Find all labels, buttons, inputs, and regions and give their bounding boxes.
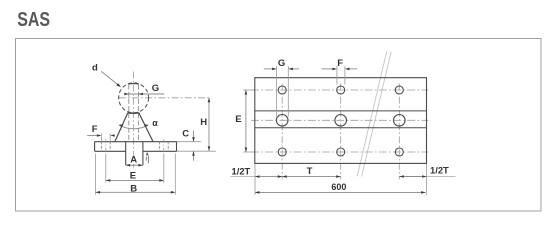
B extension lines [95,154,97,195]
svg-text:α: α [152,118,158,128]
half-T left faint line [231,176,256,178]
boss left edge [125,142,127,165]
ball top edge arc [129,83,139,86]
hole row3 col3 [395,148,403,156]
F dimension arrows [87,135,97,137]
svg-text:G: G [278,58,285,69]
ball d (dashed circle) [119,83,149,113]
A dimension line (boss bottom) [126,164,143,166]
left plate hole hidden edges [100,142,102,152]
svg-text:1/2T: 1/2T [430,164,449,175]
rail groove lower edge [255,127,427,129]
plate top extension for C [177,141,201,143]
plate bottom extension for C and H [177,150,216,152]
bottom extension line right edge [426,164,428,195]
hole row1 col3 [395,86,403,94]
break line 2 [362,52,392,177]
hole row3 col1 [278,148,286,156]
svg-text:B: B [130,184,137,195]
E extension lines [105,154,107,183]
svg-text:C: C [182,129,189,140]
C dimension arrows [193,131,195,142]
G dimension (ball hole) [124,93,164,95]
hole row3 col2 [337,148,345,156]
svg-text:d: d [92,63,98,74]
column centerline 1 [281,84,283,180]
content box frame [16,39,542,212]
svg-text:G: G [152,83,159,94]
H dimension line [208,98,210,151]
row centerline middle [251,119,428,121]
T dimension [282,176,341,178]
column centerline 3 [398,84,400,180]
plate bottom edge right part [143,150,177,152]
alpha angle arc [120,125,148,128]
big hole row2 col1 [276,115,288,127]
right plate hole hidden edges [159,142,161,152]
vertical centerline [133,72,135,168]
plate top edge [95,141,177,143]
G extension lines (big hole) [276,66,278,117]
F extension lines (small hole) [336,66,338,85]
horizontal centerline through ball [119,97,212,99]
E dimension line [106,179,164,181]
E dimension line (right view) [245,90,247,152]
big hole row2 col3 [394,115,406,127]
F dimension arrows [321,68,332,70]
svg-text:E: E [130,171,136,182]
bottom extension line left edge [254,164,256,195]
cone right side [139,113,153,142]
plate bottom edge left part [95,150,126,152]
svg-text:H: H [200,117,207,128]
hole row1 col1 [278,86,286,94]
half-T right faint line [427,176,456,178]
hidden hole wall left [128,85,130,142]
svg-text:F: F [92,124,98,135]
svg-text:E: E [235,114,241,125]
column centerline 2 [340,84,342,180]
svg-text:F: F [337,58,343,69]
rail groove upper edge [255,110,427,112]
svg-text:T: T [307,166,313,177]
row centerline top [251,89,428,91]
break line 1 [357,52,387,177]
svg-text:A: A [130,154,137,165]
plate right edge [176,142,178,152]
cone left side [115,113,128,142]
half-T left dimension [255,176,282,178]
svg-text:600: 600 [331,182,346,192]
F extension lines [100,134,102,142]
plate left edge [94,142,96,152]
600 dimension line [255,191,426,193]
half-T right dimension [399,176,426,178]
leader arrow from d to ball [101,71,119,86]
svg-text:SAS: SAS [17,9,50,31]
E extension lines (right view) [243,89,254,91]
cone top edge [128,112,139,115]
row centerline bottom [251,151,428,153]
B dimension line [96,191,176,193]
rail plate outline [255,78,427,164]
hidden hole wall right [137,85,139,142]
small tick dimension near boss [146,152,149,156]
G dimension arrows [264,68,273,70]
boss right edge [142,142,144,165]
right plate hole centerline [163,139,165,154]
left plate hole centerline [105,139,107,154]
svg-text:1/2T: 1/2T [232,166,251,177]
hole row1 col2 [337,86,345,94]
big hole row2 col2 [335,115,347,127]
